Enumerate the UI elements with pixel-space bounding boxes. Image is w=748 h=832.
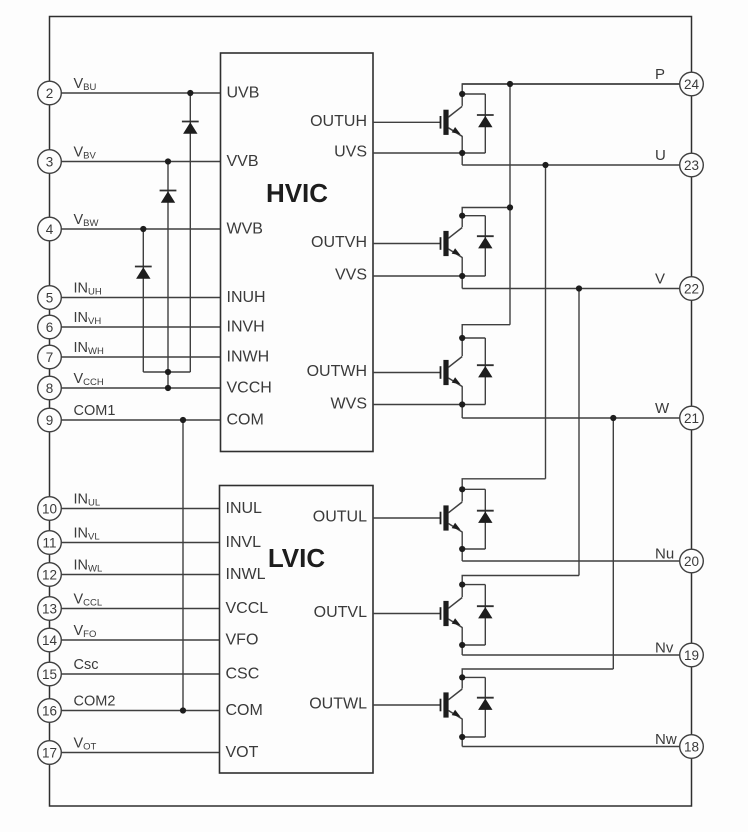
junction emitter Q4 (U low)	[459, 546, 465, 552]
pin label HVIC VVS	[335, 267, 367, 284]
svg-text:OUTVL: OUTVL	[314, 604, 367, 621]
transistor Q2 (V high) IGBT	[440, 216, 463, 276]
pin label HVIC VCCH	[227, 380, 272, 397]
svg-text:22: 22	[684, 281, 699, 296]
node pin 2 (VBU)	[38, 81, 62, 105]
pin label LVIC INUL	[226, 500, 263, 517]
svg-text:UVB: UVB	[227, 85, 260, 102]
wire emitter drop of Q1 (U high)	[461, 153, 463, 165]
svg-text:24: 24	[684, 77, 700, 92]
junction VBW/D3	[140, 226, 146, 232]
node pin 6 (INVH)	[38, 315, 62, 339]
svg-text:19: 19	[684, 648, 699, 663]
node pin 11 (INVL)	[38, 531, 62, 555]
node pin 12 (INWL)	[38, 563, 62, 587]
svg-text:Nw: Nw	[655, 731, 677, 748]
transistor Q6 (W low) IGBT	[440, 677, 463, 737]
svg-text:VVB: VVB	[227, 153, 259, 170]
pin label HVIC UVS	[334, 144, 367, 161]
wire pin 14 (VFO) to IC	[61, 639, 219, 641]
junction emitter Q5 (V low)	[459, 642, 465, 648]
node pin 22 (V)	[680, 277, 704, 301]
wire bootstrap common bus y=372	[143, 371, 190, 373]
svg-text:VFO: VFO	[226, 632, 259, 649]
svg-text:9: 9	[46, 413, 54, 428]
net label VBV	[74, 145, 97, 162]
net label COM2	[74, 694, 116, 710]
node pin 9 (COM1)	[38, 408, 62, 432]
wire pin 6 (INVH) to IC	[61, 326, 220, 328]
pin label HVIC INVH	[227, 319, 265, 336]
svg-text:8: 8	[46, 381, 54, 396]
net label INUL	[74, 492, 101, 509]
svg-text:INUL: INUL	[226, 500, 263, 517]
pin label LVIC VFO	[226, 632, 259, 649]
wire collector bracket of Q6 (W low)	[462, 669, 614, 677]
svg-text:COM: COM	[227, 412, 264, 429]
net label VCCH	[74, 371, 104, 388]
node pin 15 (Csc)	[38, 662, 62, 686]
pin label LVIC VOT	[226, 744, 259, 761]
net label Nv	[655, 640, 674, 657]
node pin 5 (INUH)	[38, 286, 62, 310]
node pin 4 (VBW)	[38, 217, 62, 241]
op-amp U2 LVIC block	[220, 486, 374, 774]
svg-text:W: W	[655, 400, 670, 417]
junction emitter Q1 (U high)	[459, 150, 465, 156]
wire emitter drop of Q4 (U low)	[461, 549, 463, 561]
node pin 21 (W)	[680, 406, 704, 430]
junction W rail	[610, 415, 616, 421]
pin label HVIC WVS	[331, 396, 367, 413]
pin label HVIC OUTUH	[310, 113, 367, 130]
net label INUH	[74, 281, 102, 298]
wire gate drive to Q3 (W high)	[373, 372, 440, 374]
net label INVL	[74, 526, 100, 543]
svg-text:INWL: INWL	[226, 566, 266, 583]
svg-text:11: 11	[42, 535, 56, 550]
net label Csc	[74, 657, 99, 673]
wire gate drive to Q4 (U low)	[373, 517, 440, 519]
svg-text:OUTWL: OUTWL	[309, 696, 367, 713]
junction COM1/trunk	[180, 417, 186, 423]
svg-text:5: 5	[46, 290, 54, 305]
wire U output line to pin 23	[462, 164, 680, 166]
node pin 7 (INWH)	[38, 345, 62, 369]
wire pin 13 (VCCL) to IC	[61, 608, 219, 610]
net label U	[655, 147, 666, 164]
junction bus/VCCH	[165, 385, 171, 391]
net label V	[655, 271, 665, 288]
wire Nv output line to pin 19	[462, 654, 680, 656]
net label W	[655, 400, 670, 417]
diode freewheel of Q3 (W high)	[462, 338, 494, 405]
svg-text:CSC: CSC	[226, 666, 260, 683]
svg-text:OUTUH: OUTUH	[310, 113, 367, 130]
svg-text:VOT: VOT	[226, 744, 259, 761]
svg-text:18: 18	[684, 739, 699, 754]
net label VFO	[74, 623, 97, 640]
transistor Q5 (V low) IGBT	[440, 585, 463, 645]
svg-text:P: P	[655, 66, 665, 83]
junction emitter Q6 (W low)	[459, 734, 465, 740]
svg-text:Csc: Csc	[74, 657, 99, 673]
svg-text:OUTUL: OUTUL	[313, 509, 367, 526]
pin label HVIC OUTWH	[307, 363, 367, 380]
pin label HVIC OUTVH	[311, 234, 367, 251]
svg-text:10: 10	[42, 501, 57, 516]
junction VBU/D1	[187, 90, 193, 96]
diode freewheel of Q1 (U high)	[462, 94, 494, 153]
svg-text:VCCL: VCCL	[226, 600, 269, 617]
pin label HVIC WVB	[227, 221, 263, 238]
junction collector Q2 (V high)	[459, 213, 465, 219]
wire emitter of Q4 (U low)	[462, 548, 485, 550]
svg-text:Nv: Nv	[655, 640, 674, 657]
svg-text:LVIC: LVIC	[268, 543, 326, 573]
svg-text:16: 16	[42, 703, 57, 718]
wire emitter drop of Q3 (W high)	[461, 405, 463, 419]
wire emitter sense of Q1 (U high)	[373, 152, 485, 154]
svg-text:VVS: VVS	[335, 267, 367, 284]
svg-text:INVL: INVL	[226, 534, 262, 551]
pin label LVIC COM	[226, 702, 263, 719]
junction P rail / Q2 collector	[507, 204, 513, 210]
node pin 19 (Nv)	[680, 643, 704, 667]
node pin 18 (Nw)	[680, 735, 704, 759]
junction emitter Q3 (W high)	[459, 401, 465, 407]
pin label LVIC VCCL	[226, 600, 269, 617]
svg-text:Nu: Nu	[655, 546, 674, 563]
svg-text:2: 2	[46, 86, 54, 101]
pin label LVIC OUTUL	[313, 509, 367, 526]
pin label HVIC INUH	[227, 289, 266, 306]
transistor Q4 (U low) IGBT	[440, 489, 463, 549]
wire pin 3 (VBV) to IC	[61, 161, 220, 163]
svg-text:17: 17	[42, 745, 57, 760]
junction VBV/D2	[165, 158, 171, 164]
junction V rail	[576, 285, 582, 291]
wire W rail down (x=613)	[612, 418, 614, 669]
svg-text:7: 7	[46, 350, 54, 365]
op-amp U1 HVIC block	[221, 53, 374, 452]
net label P	[655, 66, 665, 83]
svg-text:15: 15	[42, 667, 57, 682]
wire collector bracket of Q2 (V high)	[462, 208, 511, 216]
wire pin 4 (VBW) to IC	[61, 228, 220, 230]
svg-text:6: 6	[46, 320, 54, 335]
wire emitter sense of Q2 (V high)	[373, 275, 485, 277]
wire P output line to pin 24	[462, 83, 680, 85]
pin label HVIC VVB	[227, 153, 259, 170]
svg-text:HVIC: HVIC	[266, 178, 328, 208]
wire collector bracket of Q4 (U low)	[462, 479, 546, 490]
wire pin 9 (COM1) to IC	[61, 419, 220, 421]
svg-text:23: 23	[684, 158, 699, 173]
svg-text:OUTWH: OUTWH	[307, 363, 367, 380]
diode D2 (bootstrap, VBV)	[160, 191, 177, 203]
wire V output line to pin 22	[462, 288, 680, 290]
svg-text:COM1: COM1	[74, 403, 116, 419]
wire collector bracket of Q5 (V low)	[462, 576, 580, 585]
junction collector Q1 (U high)	[459, 91, 465, 97]
wire bootstrap diode D1 branch (VBU rail x=190)	[189, 93, 191, 372]
junction U rail	[542, 162, 548, 168]
svg-text:12: 12	[42, 567, 57, 582]
svg-text:COM2: COM2	[74, 694, 116, 710]
node pin 14 (VFO)	[38, 628, 62, 652]
junction collector Q5 (V low)	[459, 582, 465, 588]
node pin 13 (VCCL)	[38, 597, 62, 621]
node pin 24 (P)	[680, 72, 704, 96]
wire gate drive to Q1 (U high)	[373, 121, 440, 123]
pin label LVIC OUTWL	[309, 696, 367, 713]
net label VBU	[74, 76, 97, 93]
node pin 10 (INUL)	[38, 497, 62, 521]
wire pin 12 (INWL) to IC	[61, 574, 219, 576]
node pin 3 (VBV)	[38, 150, 62, 174]
wire emitter drop of Q6 (W low)	[461, 737, 463, 747]
wire bootstrap diode D3 branch (VBW rail x=143)	[142, 229, 144, 372]
junction collector Q3 (W high)	[459, 335, 465, 341]
wire pin 2 (VBU) to IC	[61, 92, 220, 94]
svg-text:13: 13	[42, 601, 57, 616]
wire W output line to pin 21	[462, 417, 680, 419]
svg-text:3: 3	[46, 154, 54, 169]
diode freewheel of Q6 (W low)	[462, 677, 494, 737]
junction P rail	[507, 81, 513, 87]
svg-text:14: 14	[42, 633, 58, 648]
wire emitter drop of Q5 (V low)	[461, 645, 463, 655]
node pin 23 (U)	[680, 153, 704, 177]
wire bootstrap diode D2 branch (VBV rail x=168)	[167, 162, 169, 373]
wire collector bracket of Q1 (U high)	[462, 84, 681, 94]
wire emitter of Q6 (W low)	[462, 736, 485, 738]
wire pin 15 (Csc) to IC	[61, 673, 219, 675]
wire pin 5 (INUH) to IC	[61, 297, 220, 299]
transistor Q1 (U high) IGBT	[440, 94, 463, 153]
diode freewheel of Q4 (U low)	[462, 489, 494, 549]
wire V rail down (x=579)	[578, 289, 580, 576]
node pin 16 (COM2)	[38, 699, 62, 723]
node pin 8 (VCCH)	[38, 376, 62, 400]
junction bootstrap bus	[165, 369, 171, 375]
wire pin 11 (INVL) to IC	[61, 542, 219, 544]
node pin 20 (Nu)	[680, 549, 704, 573]
pin label HVIC INWH	[227, 349, 270, 366]
svg-text:UVS: UVS	[334, 144, 367, 161]
pin label LVIC INVL	[226, 534, 262, 551]
wire collector bracket of Q3 (W high)	[462, 325, 511, 338]
wire COM trunk COM1-COM2	[182, 420, 184, 711]
wire P rail down (x=510)	[509, 84, 511, 325]
svg-text:WVS: WVS	[331, 396, 367, 413]
net label VBW	[74, 212, 99, 229]
svg-text:INVH: INVH	[227, 319, 265, 336]
svg-text:WVB: WVB	[227, 221, 263, 238]
wire emitter of Q5 (V low)	[462, 644, 485, 646]
junction collector Q4 (U low)	[459, 486, 465, 492]
svg-text:U: U	[655, 147, 666, 164]
net label INVH	[74, 310, 102, 327]
diode freewheel of Q5 (V low)	[462, 585, 494, 645]
svg-text:COM: COM	[226, 702, 263, 719]
wire emitter sense of Q3 (W high)	[373, 404, 485, 406]
wire Nw output line to pin 18	[462, 746, 680, 748]
node pin 17 (VOT)	[38, 741, 62, 765]
wire bootstrap bus to VCCH	[167, 372, 169, 388]
wire gate drive to Q5 (V low)	[373, 613, 440, 615]
pin label LVIC CSC	[226, 666, 260, 683]
wire pin 8 (VCCH) to IC	[61, 387, 220, 389]
wire pin 16 (COM2) to IC	[61, 710, 219, 712]
wire emitter drop of Q2 (V high)	[461, 276, 463, 289]
diode freewheel of Q2 (V high)	[462, 216, 494, 276]
wire Nu output line to pin 20	[462, 560, 680, 562]
svg-text:INUH: INUH	[227, 289, 266, 306]
svg-text:21: 21	[684, 411, 699, 426]
wire pin 17 (VOT) to IC	[61, 752, 219, 754]
net label VOT	[74, 736, 97, 753]
wire pin 7 (INWH) to IC	[61, 356, 220, 358]
svg-text:4: 4	[46, 222, 54, 237]
pin label HVIC COM	[227, 412, 264, 429]
junction emitter Q2 (V high)	[459, 273, 465, 279]
pin label LVIC INWL	[226, 566, 266, 583]
junction collector Q6 (W low)	[459, 674, 465, 680]
svg-text:20: 20	[684, 554, 699, 569]
wire gate drive to Q6 (W low)	[373, 704, 440, 706]
net label Nw	[655, 731, 677, 748]
net label COM1	[74, 403, 116, 419]
diode D1 (bootstrap, VBU)	[182, 122, 199, 134]
diode D3 (bootstrap, VBW)	[135, 267, 152, 279]
net label VCCL	[74, 592, 103, 609]
svg-text:VCCH: VCCH	[227, 380, 272, 397]
svg-text:INWH: INWH	[227, 349, 270, 366]
wire U rail down (x=545.5)	[545, 165, 547, 479]
wire pin 10 (INUL) to IC	[61, 508, 219, 510]
pin label LVIC OUTVL	[314, 604, 367, 621]
svg-text:OUTVH: OUTVH	[311, 234, 367, 251]
transistor Q3 (W high) IGBT	[440, 338, 463, 405]
svg-text:V: V	[655, 271, 665, 288]
wire gate drive to Q2 (V high)	[373, 243, 440, 245]
junction COM2/trunk	[180, 707, 186, 713]
net label Nu	[655, 546, 674, 563]
net label INWH	[74, 340, 104, 357]
net label INWL	[74, 558, 103, 575]
pin label HVIC UVB	[227, 85, 260, 102]
